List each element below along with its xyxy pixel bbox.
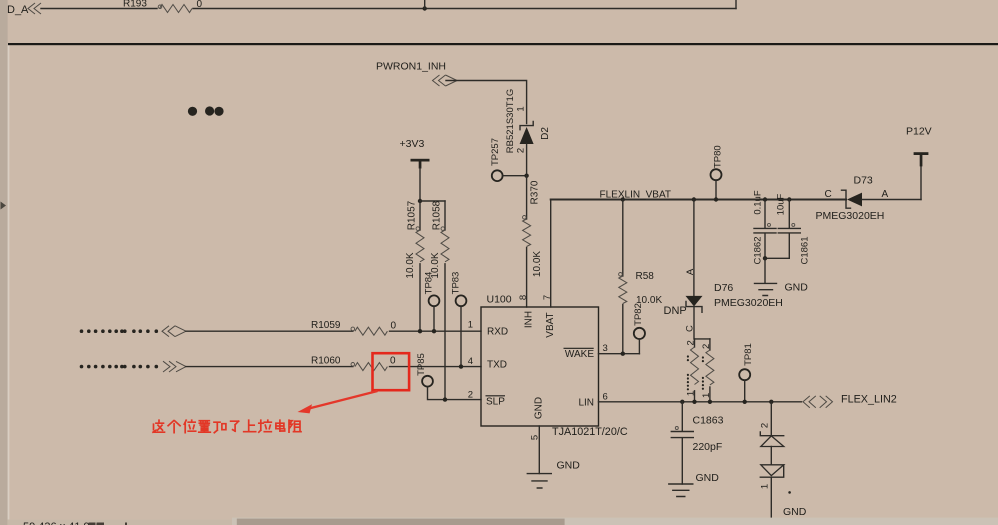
wire WAKE pin3 bbox=[599, 353, 640, 355]
wire pin7 VBAT up bbox=[550, 200, 552, 308]
svg-text:TP81: TP81 bbox=[743, 343, 754, 366]
junction dots LIN row bbox=[692, 400, 696, 404]
svg-text:220pF: 220pF bbox=[693, 441, 723, 453]
test point TP83 bbox=[456, 295, 467, 306]
stray dot bbox=[788, 491, 791, 494]
test point TP80 bbox=[711, 169, 722, 180]
svg-text:D76: D76 bbox=[714, 282, 733, 294]
svg-text:R1060: R1060 bbox=[311, 355, 341, 366]
left panel strip bbox=[0, 0, 8, 525]
ground IC bbox=[527, 474, 551, 488]
scrollbar track bbox=[232, 518, 998, 525]
svg-text:D2: D2 bbox=[540, 127, 551, 140]
glyph wei bbox=[184, 420, 196, 433]
svg-text:C: C bbox=[825, 189, 832, 200]
capacitor C1863 bbox=[680, 400, 684, 404]
svg-text:C1861: C1861 bbox=[800, 237, 811, 265]
svg-text:6: 6 bbox=[603, 392, 608, 403]
glyph la bbox=[259, 420, 272, 432]
junction +3V3 split bbox=[418, 199, 422, 203]
svg-text:10uF: 10uF bbox=[776, 193, 787, 215]
svg-text:RXD: RXD bbox=[487, 326, 508, 337]
ground C1863 bbox=[669, 484, 693, 497]
svg-text:8: 8 bbox=[518, 295, 529, 300]
svg-text:TP80: TP80 bbox=[713, 145, 724, 168]
wire FLEXLIN_VBAT bbox=[551, 199, 846, 201]
svg-text:GND: GND bbox=[783, 506, 807, 518]
svg-text:RB521S30T1G: RB521S30T1G bbox=[505, 89, 516, 153]
svg-text:0: 0 bbox=[391, 320, 397, 331]
wire pin5 to ground bbox=[538, 426, 540, 474]
svg-text:R1059: R1059 bbox=[311, 320, 341, 331]
wire PWRON1_INH to D2 bbox=[446, 81, 527, 124]
svg-text:2: 2 bbox=[701, 344, 712, 349]
svg-text:1: 1 bbox=[760, 484, 771, 489]
wire top net right bbox=[193, 8, 736, 10]
resistor DNP pair right bbox=[709, 339, 711, 350]
resistor DNP pair left bbox=[695, 338, 710, 340]
svg-text:D_A: D_A bbox=[7, 4, 29, 16]
svg-text:R58: R58 bbox=[636, 271, 655, 282]
svg-text:2: 2 bbox=[760, 423, 771, 428]
wire LIN row bbox=[599, 401, 802, 403]
hidden net dots RXD bbox=[80, 329, 158, 333]
wire corner up right bbox=[735, 0, 737, 9]
svg-text:GND: GND bbox=[696, 472, 720, 484]
svg-text:U100: U100 bbox=[487, 294, 512, 306]
svg-text:GND: GND bbox=[534, 397, 545, 419]
svg-text:2: 2 bbox=[515, 148, 526, 153]
svg-text:A: A bbox=[882, 189, 889, 200]
glyph zhi bbox=[199, 421, 211, 433]
glyph dian bbox=[276, 420, 285, 431]
svg-text:1: 1 bbox=[686, 391, 697, 396]
capacitor C1862 bbox=[763, 197, 767, 201]
wire RXD bbox=[186, 330, 481, 332]
wire SLP bbox=[445, 399, 481, 401]
DNP dot marks bbox=[687, 355, 704, 390]
svg-text:0: 0 bbox=[390, 356, 396, 367]
resistor R1057 bbox=[419, 201, 421, 230]
svg-text:PMEG3020EH: PMEG3020EH bbox=[714, 297, 783, 309]
svg-text:TP257: TP257 bbox=[490, 138, 501, 166]
svg-text:A: A bbox=[685, 268, 696, 275]
svg-text:4: 4 bbox=[468, 356, 473, 367]
svg-text:3: 3 bbox=[603, 343, 608, 354]
svg-text:TP85: TP85 bbox=[416, 353, 427, 376]
junction TP257/D2 bbox=[524, 174, 528, 178]
svg-text:TP82: TP82 bbox=[633, 303, 644, 326]
svg-text:WAKE: WAKE bbox=[565, 349, 594, 360]
svg-text:+3V3: +3V3 bbox=[400, 138, 425, 150]
test point TP82 bbox=[634, 328, 645, 339]
bottom status bar bbox=[8, 520, 998, 525]
resistor R1058 bbox=[444, 201, 446, 230]
test point TP81 bbox=[739, 369, 750, 380]
svg-text:FLEX_LIN2: FLEX_LIN2 bbox=[841, 394, 897, 406]
svg-text:TP84: TP84 bbox=[423, 272, 434, 295]
junction SLP bbox=[443, 397, 447, 401]
wire TXD bbox=[186, 366, 481, 368]
resistor R370 bbox=[526, 176, 528, 219]
wire branch up bbox=[424, 0, 426, 9]
IC U100 TJA1021T (body) bbox=[481, 307, 599, 426]
svg-text:R1058: R1058 bbox=[432, 200, 443, 230]
svg-text:TJA1021T/20/C: TJA1021T/20/C bbox=[552, 426, 628, 438]
svg-text:C: C bbox=[685, 325, 696, 332]
port FLEX_LIN2 bbox=[803, 396, 833, 408]
glyph jia bbox=[214, 422, 226, 433]
svg-text:PMEG3020EH: PMEG3020EH bbox=[816, 210, 885, 222]
svg-text:R370: R370 bbox=[530, 180, 541, 204]
section divider line bbox=[8, 43, 998, 45]
test point TP257 bbox=[492, 170, 503, 181]
svg-text:2: 2 bbox=[468, 390, 473, 401]
svg-text:10.0K: 10.0K bbox=[405, 252, 416, 278]
svg-text:FLEXLIN_VBAT: FLEXLIN_VBAT bbox=[600, 189, 672, 200]
capacitor C1861 bbox=[787, 197, 791, 201]
diode D2 bbox=[520, 122, 533, 130]
svg-text:1: 1 bbox=[468, 320, 473, 331]
dots marks bbox=[188, 107, 197, 116]
svg-text:PWRON1_INH: PWRON1_INH bbox=[376, 61, 446, 73]
svg-text:10.0K: 10.0K bbox=[532, 251, 543, 277]
svg-text:GND: GND bbox=[557, 460, 581, 472]
junction top branch bbox=[423, 6, 427, 10]
glyph le bbox=[231, 421, 239, 431]
svg-text:C1863: C1863 bbox=[693, 414, 724, 426]
panel toggle triangle bbox=[1, 202, 7, 210]
glyph zu bbox=[289, 420, 301, 432]
glyph zhe bbox=[153, 420, 165, 432]
annotation red box bbox=[373, 353, 410, 390]
svg-text:R1057: R1057 bbox=[406, 200, 417, 230]
annotation red arrow bbox=[306, 391, 378, 409]
svg-text:DNP: DNP bbox=[664, 305, 687, 317]
glyph ge bbox=[168, 421, 180, 433]
svg-text:INH: INH bbox=[524, 311, 535, 328]
test point TP84 bbox=[429, 295, 440, 306]
svg-text:C1862: C1862 bbox=[753, 237, 764, 265]
port PWRON1_INH bbox=[433, 75, 458, 86]
port chevron TXD bbox=[163, 361, 186, 372]
svg-text:D73: D73 bbox=[854, 175, 873, 187]
svg-text:TP83: TP83 bbox=[450, 272, 461, 295]
svg-text:P12V: P12V bbox=[906, 126, 932, 138]
svg-text:0.1uF: 0.1uF bbox=[753, 190, 764, 214]
resistor R58 bbox=[621, 197, 625, 201]
port chevron RXD bbox=[162, 326, 186, 337]
junction dots RXD row bbox=[418, 329, 422, 333]
svg-text:2: 2 bbox=[686, 340, 697, 345]
junction TXD row bbox=[459, 364, 463, 368]
ground capacitors bbox=[764, 258, 766, 283]
svg-text:1: 1 bbox=[515, 106, 526, 111]
svg-text:TXD: TXD bbox=[487, 360, 507, 371]
glyph shang bbox=[244, 420, 256, 432]
svg-text:SLP: SLP bbox=[486, 396, 505, 407]
svg-text:1: 1 bbox=[701, 393, 712, 398]
svg-text:VBAT: VBAT bbox=[545, 312, 556, 337]
svg-text:R193: R193 bbox=[123, 0, 147, 10]
wire top net left bbox=[41, 8, 157, 10]
test point TP85 bbox=[422, 376, 433, 387]
diode pair TVS bbox=[769, 400, 773, 404]
scrollbar thumb bbox=[237, 519, 565, 525]
svg-text:LIN: LIN bbox=[578, 397, 594, 408]
power P12V bbox=[920, 166, 922, 200]
port chevron D_A bbox=[28, 3, 41, 14]
diode D76 bbox=[692, 197, 696, 201]
svg-text:GND: GND bbox=[785, 281, 809, 293]
hidden net dots TXD bbox=[80, 365, 158, 369]
annotation text (red Chinese glyph strokes) bbox=[153, 420, 301, 433]
